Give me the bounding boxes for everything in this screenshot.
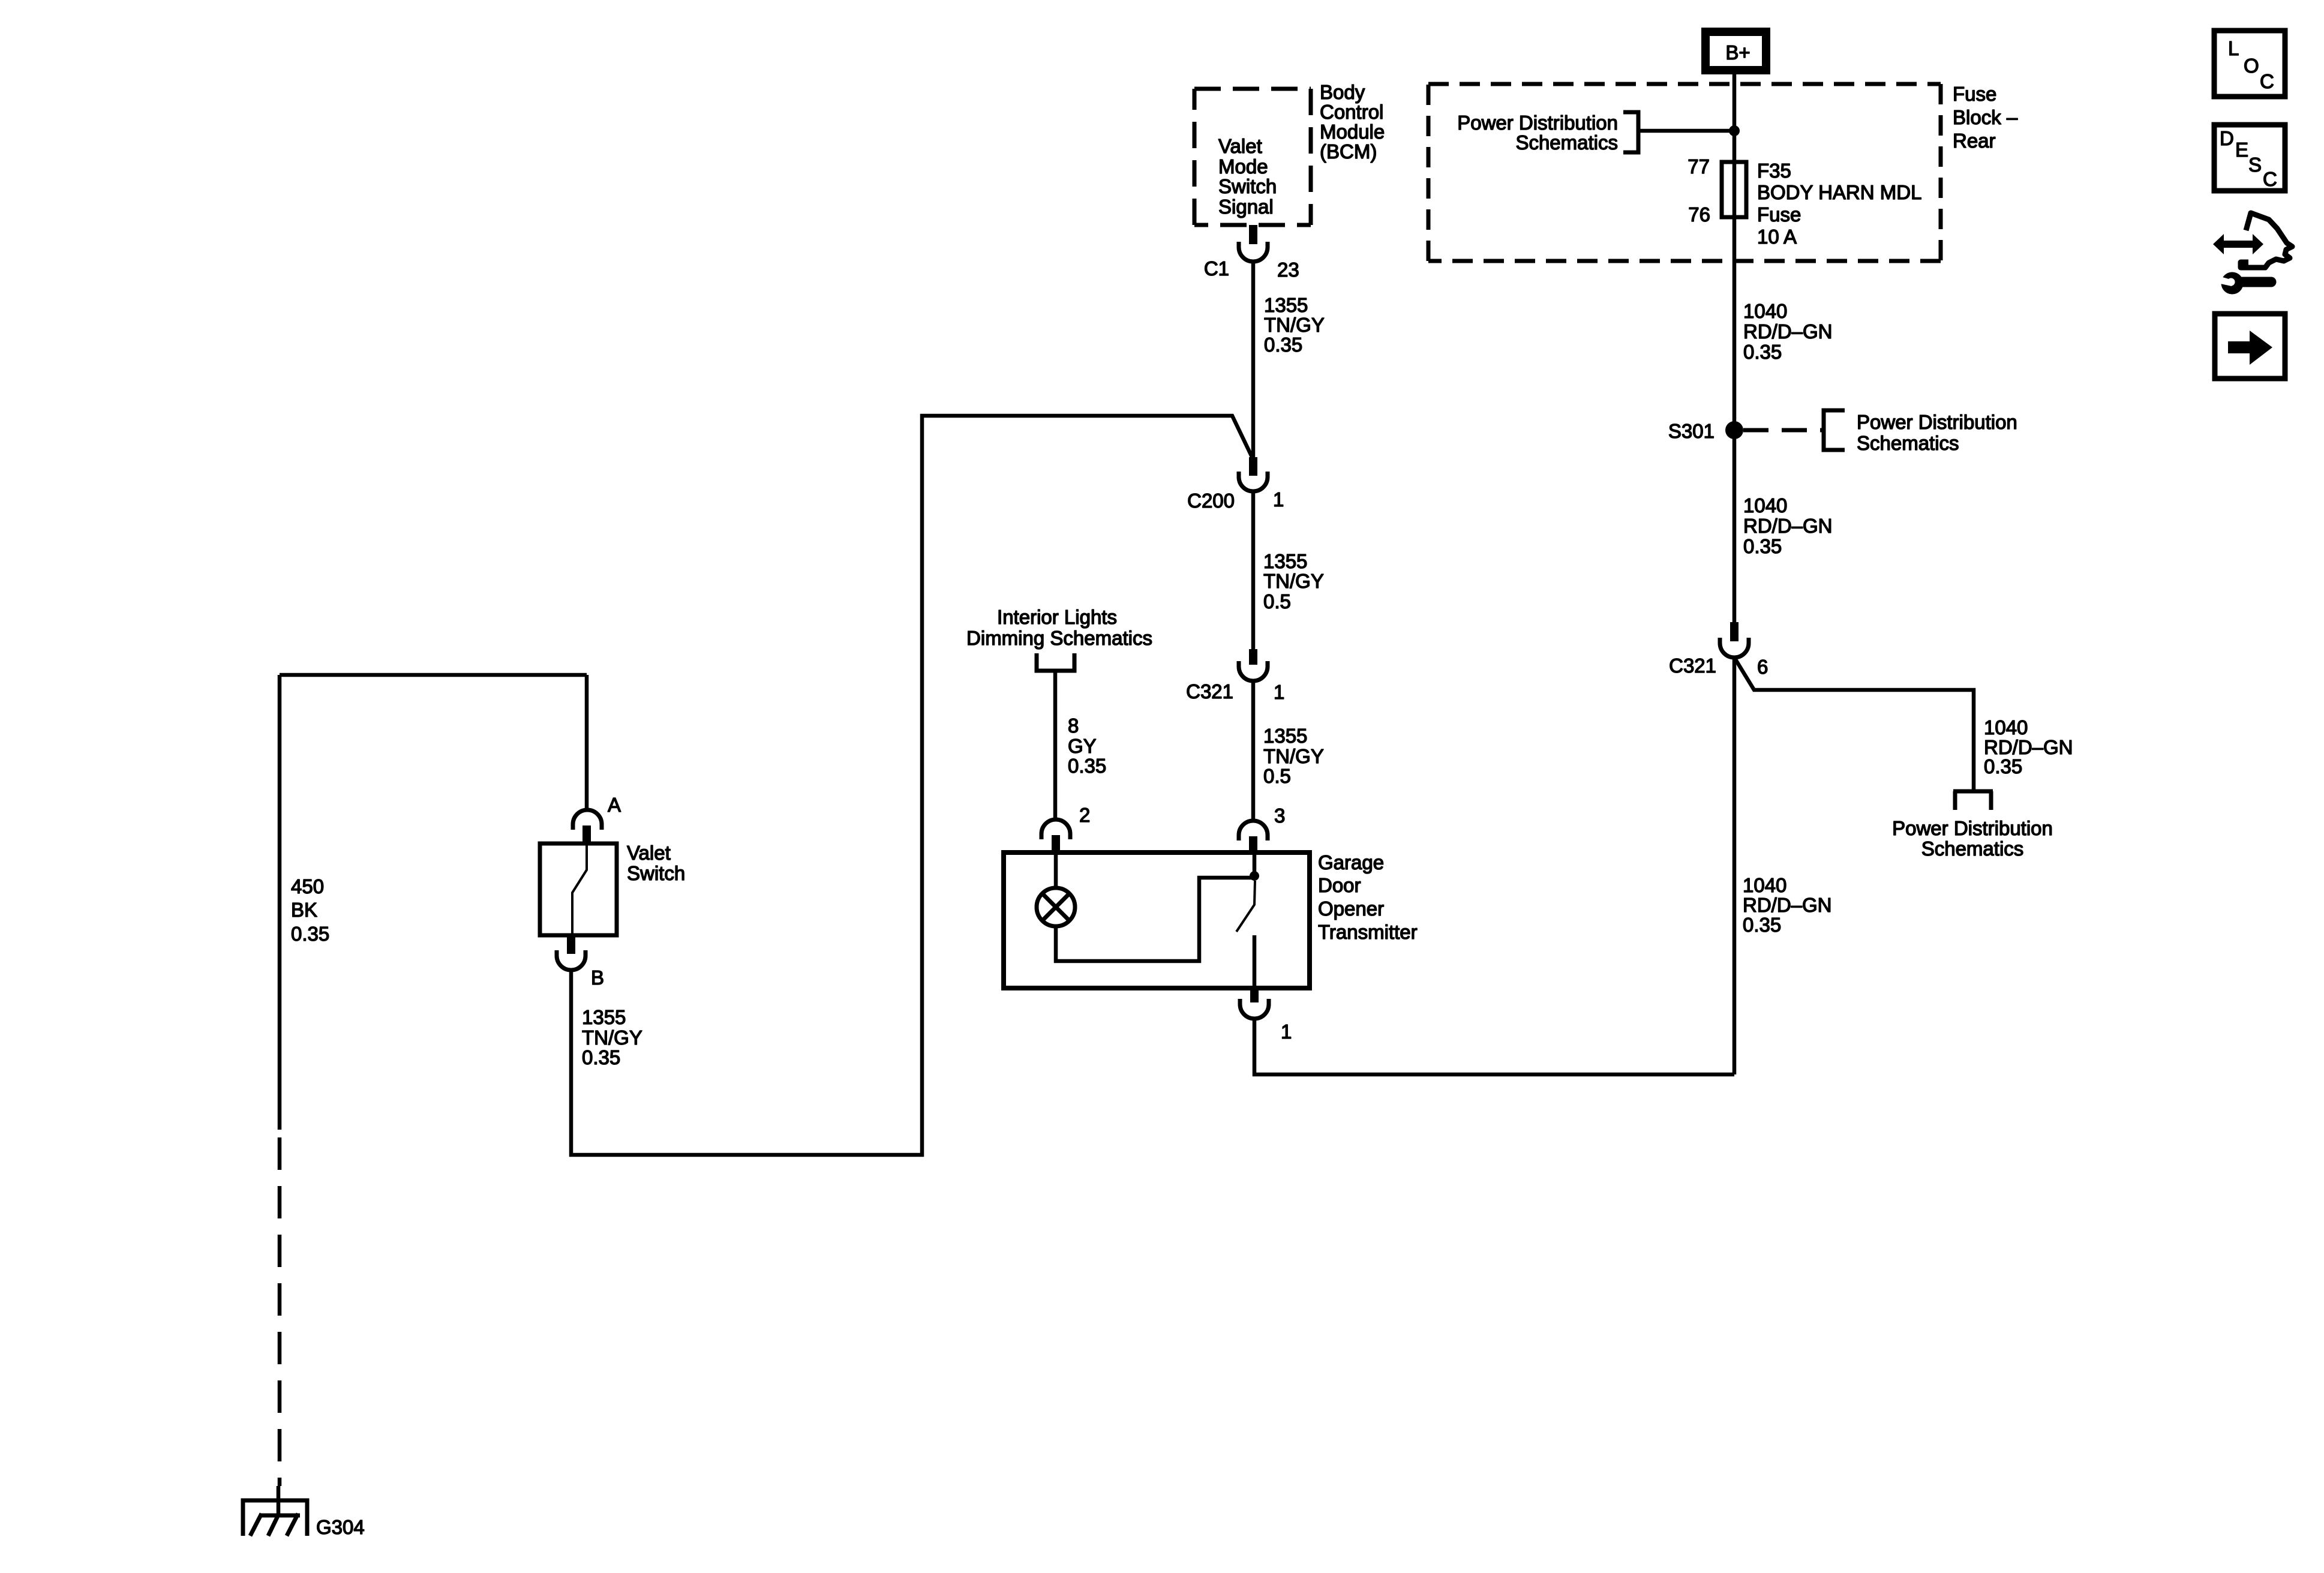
label Valet Mode Switch Signal: [1218, 135, 1277, 218]
svg-text:1040: 1040: [1743, 874, 1786, 896]
wire C321 to connector 3: [1251, 681, 1256, 821]
svg-text:Schematics: Schematics: [1921, 837, 2024, 860]
Fuse Block - Rear dashed box: [1428, 84, 1941, 261]
svg-text:1: 1: [1274, 681, 1284, 703]
svg-text:Valet: Valet: [1218, 135, 1262, 157]
svg-text:Door: Door: [1318, 874, 1361, 896]
svg-text:Fuse: Fuse: [1757, 203, 1801, 226]
dashed wire S301 to bracket: [1743, 428, 1824, 433]
svg-text:Block –: Block –: [1953, 106, 2018, 128]
svg-text:0.35: 0.35: [1068, 755, 1106, 777]
svg-text:RD/D–GN: RD/D–GN: [1743, 320, 1833, 343]
wire from B+ to fuse F35 and down to C321 stub: [1733, 74, 1737, 622]
svg-text:0.5: 0.5: [1263, 590, 1291, 613]
svg-text:Rear: Rear: [1953, 130, 1996, 152]
svg-text:S301: S301: [1668, 420, 1715, 442]
wire to valet switch A: [585, 675, 589, 810]
svg-text:1: 1: [1281, 1020, 1292, 1043]
svg-text:Opener: Opener: [1318, 897, 1384, 920]
svg-text:Switch: Switch: [627, 862, 685, 884]
wire left leg dashed part: [278, 1137, 282, 1486]
valet switch blade: [572, 843, 587, 935]
connector 2 on transmitter: [1041, 819, 1070, 852]
svg-text:BODY HARN MDL: BODY HARN MDL: [1757, 181, 1921, 203]
svg-text:Switch: Switch: [1218, 175, 1277, 197]
svg-text:1355: 1355: [1264, 294, 1308, 316]
svg-text:6: 6: [1757, 656, 1768, 678]
wire connector 1 to right leg: [1254, 1019, 1734, 1074]
svg-text:C: C: [2260, 70, 2274, 92]
junction node on B+ feed: [1729, 125, 1740, 136]
label Power Distribution Schematics (S301): [1857, 411, 2017, 454]
svg-text:Schematics: Schematics: [1515, 131, 1618, 154]
wire connector 3 into box: [1253, 852, 1257, 876]
label Garage Door Opener Transmitter: [1318, 851, 1418, 943]
svg-text:23: 23: [1277, 259, 1299, 281]
svg-text:Valet: Valet: [627, 842, 671, 864]
svg-text:O: O: [2244, 55, 2259, 77]
label Fuse Block - Rear: [1953, 83, 2018, 152]
svg-text:C200: C200: [1187, 490, 1235, 512]
svg-text:B+: B+: [1725, 41, 1750, 64]
Body Control Module dashed box: [1194, 89, 1311, 225]
svg-text:1355: 1355: [1263, 725, 1307, 747]
label 1355 TN/GY 0.35 (C1 to C200): [1264, 294, 1325, 356]
bracket to Power Distribution Schematics (bottom right): [1953, 789, 1993, 794]
label 1355 TN/GY 0.5 (C321 to pin 3): [1263, 725, 1324, 787]
svg-text:10 A: 10 A: [1757, 226, 1797, 248]
label Body Control Module (BCM): [1320, 81, 1385, 163]
svg-text:D: D: [2220, 127, 2234, 149]
svg-text:0.35: 0.35: [1743, 535, 1782, 557]
switch blade (open): [1236, 881, 1255, 932]
label 1040 RD/D-GN 0.35 (fuse to S301): [1743, 300, 1833, 363]
label 450 BK 0.35: [291, 875, 329, 945]
svg-text:1040: 1040: [1743, 300, 1787, 322]
wire bracket to node: [1638, 129, 1734, 133]
svg-text:Body: Body: [1320, 81, 1365, 103]
connector C1 pin 23: [1239, 225, 1268, 262]
svg-text:GY: GY: [1068, 735, 1097, 757]
svg-text:C: C: [2263, 168, 2277, 190]
wire C200 to C321: [1251, 491, 1256, 649]
svg-text:C321: C321: [1186, 680, 1233, 703]
svg-text:Mode: Mode: [1218, 155, 1268, 178]
svg-text:C1: C1: [1204, 257, 1229, 280]
svg-text:77: 77: [1688, 155, 1710, 178]
label Power Distribution Schematics (in fuse block): [1457, 112, 1618, 154]
svg-text:Fuse: Fuse: [1953, 83, 1996, 105]
svg-text:0.35: 0.35: [582, 1046, 620, 1068]
wire into ground symbol: [277, 1486, 281, 1515]
label 8 GY 0.35: [1068, 715, 1106, 777]
svg-text:RD/D–GN: RD/D–GN: [1743, 894, 1832, 916]
label 1040 RD/D-GN 0.35 (S301 to C321): [1743, 494, 1833, 557]
svg-text:S: S: [2248, 154, 2262, 176]
svg-text:F35: F35: [1757, 160, 1791, 182]
icon LOC box: [2214, 31, 2285, 97]
splice S301: [1725, 421, 1743, 439]
ground G304 symbol: [243, 1500, 307, 1536]
bracket to Power Distribution Schematics: [1623, 112, 1638, 152]
svg-text:(BCM): (BCM): [1320, 140, 1377, 163]
svg-text:BK: BK: [291, 899, 317, 921]
icon DESC box: [2214, 125, 2285, 191]
Garage Door Opener Transmitter box: [1004, 852, 1310, 988]
svg-text:76: 76: [1688, 203, 1710, 226]
fuse F35: [1722, 162, 1746, 217]
B+ power symbol: [1701, 28, 1770, 74]
wire branch C321-6 to right bracket: [1734, 658, 1974, 791]
svg-text:Module: Module: [1320, 121, 1385, 143]
svg-text:Control: Control: [1320, 101, 1383, 123]
connector A: [573, 810, 602, 843]
svg-text:Power Distribution: Power Distribution: [1892, 817, 2053, 839]
svg-text:TN/GY: TN/GY: [582, 1026, 642, 1049]
icon double arrow with outline and wrench: [2213, 213, 2292, 295]
label 1040 RD/D-GN 0.35 (right branch): [1984, 716, 2073, 778]
connector C321 pin 1 (left): [1239, 649, 1268, 681]
junction node at switch: [1250, 871, 1259, 881]
svg-text:Interior Lights: Interior Lights: [997, 606, 1117, 628]
svg-text:3: 3: [1274, 804, 1285, 827]
switch fixed contact to box bottom: [1253, 935, 1257, 988]
svg-text:RD/D–GN: RD/D–GN: [1743, 515, 1833, 537]
wire bracket to connector 2: [1053, 671, 1058, 820]
svg-text:Signal: Signal: [1218, 196, 1274, 218]
svg-text:L: L: [2228, 37, 2239, 59]
svg-text:Garage: Garage: [1318, 851, 1384, 873]
svg-text:0.35: 0.35: [1743, 914, 1781, 936]
wire C321-6 down to bottom corner: [1733, 658, 1737, 1074]
label Interior Lights Dimming Schematics: [966, 606, 1152, 649]
svg-text:Dimming Schematics: Dimming Schematics: [966, 627, 1152, 649]
Valet Switch box: [540, 843, 617, 935]
wire valet loop: B down, across, up, to C200: [571, 416, 1254, 1155]
svg-text:TN/GY: TN/GY: [1263, 570, 1324, 592]
connector C321 pin 6 (right): [1720, 622, 1749, 658]
label Valet Switch: [627, 842, 685, 884]
svg-text:8: 8: [1068, 715, 1079, 737]
icon arrow box: [2215, 314, 2285, 379]
label 1040 RD/D-GN 0.35 (C321-6 down leg): [1743, 874, 1832, 936]
left circuit: top horizontal wire: [280, 673, 587, 677]
bracket below Interior Lights label: [1037, 653, 1074, 671]
bracket to Power Distribution Schematics (S301): [1824, 410, 1845, 450]
svg-text:G304: G304: [316, 1516, 365, 1538]
svg-text:Power Distribution: Power Distribution: [1457, 112, 1618, 134]
svg-text:1355: 1355: [1263, 550, 1307, 572]
wire left leg to ground (solid part): [278, 675, 282, 1130]
svg-text:450: 450: [291, 875, 324, 897]
svg-text:1: 1: [1273, 488, 1284, 511]
svg-text:E: E: [2235, 139, 2248, 161]
svg-text:0.35: 0.35: [1264, 334, 1302, 356]
svg-text:B: B: [591, 966, 604, 989]
label 1355 TN/GY 0.5 (C200 to C321): [1263, 550, 1324, 613]
svg-text:A: A: [608, 794, 621, 816]
svg-text:0.35: 0.35: [291, 923, 329, 945]
svg-text:C321: C321: [1669, 655, 1716, 677]
svg-text:0.35: 0.35: [1743, 341, 1782, 363]
wire lamp to switch contact: [1056, 878, 1254, 961]
connector 1 below transmitter: [1240, 988, 1269, 1019]
label F35 BODY HARN MDL Fuse 10 A: [1757, 160, 1921, 248]
wire C1 to C200: [1251, 262, 1256, 458]
connector B: [557, 935, 585, 970]
connector 3 on transmitter: [1239, 821, 1268, 852]
svg-text:1355: 1355: [582, 1006, 626, 1028]
svg-text:Schematics: Schematics: [1857, 432, 1959, 454]
svg-text:0.5: 0.5: [1263, 765, 1291, 787]
label 1355 TN/GY 0.35 (valet B): [582, 1006, 642, 1068]
svg-text:TN/GY: TN/GY: [1263, 745, 1324, 767]
svg-text:1040: 1040: [1984, 716, 2028, 739]
svg-text:0.35: 0.35: [1984, 755, 2022, 778]
label Power Distribution Schematics (bottom right): [1892, 817, 2053, 860]
svg-text:TN/GY: TN/GY: [1264, 314, 1325, 336]
svg-text:1040: 1040: [1743, 494, 1787, 517]
svg-text:Transmitter: Transmitter: [1318, 921, 1418, 943]
svg-text:2: 2: [1079, 804, 1090, 826]
lamp symbol in transmitter: [1037, 852, 1075, 926]
svg-text:Power Distribution: Power Distribution: [1857, 411, 2017, 433]
connector C200 pin 1: [1239, 457, 1268, 491]
